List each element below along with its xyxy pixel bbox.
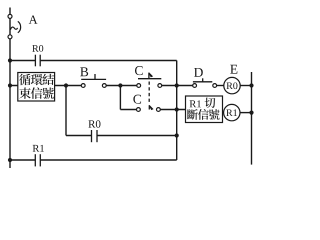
rung 3 wire (R0 seal-in row) <box>66 135 92 137</box>
label R0 (rung 1) <box>32 45 38 52</box>
left power rail <box>9 8 11 169</box>
box2 text line 2 <box>187 109 198 120</box>
comment box: R1 cut-off signal <box>186 96 223 123</box>
box2 text line 1 <box>190 100 197 107</box>
contact R1 (NO, rung 4) <box>34 154 36 166</box>
junction dots <box>8 58 12 62</box>
rung 4 wire (R1 row, bottom) <box>10 159 35 161</box>
box text line 2 <box>19 87 31 98</box>
rung 1 wire (R0 contact row) <box>10 60 35 62</box>
rung 2b wire (lower C row) <box>120 109 136 111</box>
pushbutton D (NO) <box>193 78 217 87</box>
pushbutton B (NO) <box>81 74 106 87</box>
switch A (thermal/auto switch on left rail) <box>8 14 21 38</box>
vertical bus x=176.7 <box>176 61 178 161</box>
relay coil R0 <box>224 77 240 93</box>
label C upper <box>135 66 143 75</box>
contact C upper (NO, linked) <box>137 73 162 88</box>
box text line 1 <box>19 74 30 85</box>
label A <box>29 16 38 24</box>
label C lower <box>133 95 141 104</box>
mechanical link (dashed) <box>148 82 150 105</box>
branch down from B-junction to rung 3 <box>65 86 67 136</box>
contact C lower (NO, linked) <box>137 105 161 111</box>
label B <box>80 67 88 76</box>
label D <box>194 68 203 77</box>
label E <box>230 65 237 74</box>
label R1 (rung 4) <box>33 145 40 152</box>
contact R0 (NO, rung 3) <box>91 130 93 142</box>
relay coil R1 <box>223 112 224 114</box>
branch down to lower C <box>119 86 121 110</box>
comment box: cycle-end signal <box>18 73 55 102</box>
right power rail <box>251 72 253 165</box>
label R0 (rung 3) <box>88 120 95 127</box>
contact R0 (NO, rung 1) <box>34 55 36 67</box>
rung 2 wire segments <box>10 85 82 87</box>
